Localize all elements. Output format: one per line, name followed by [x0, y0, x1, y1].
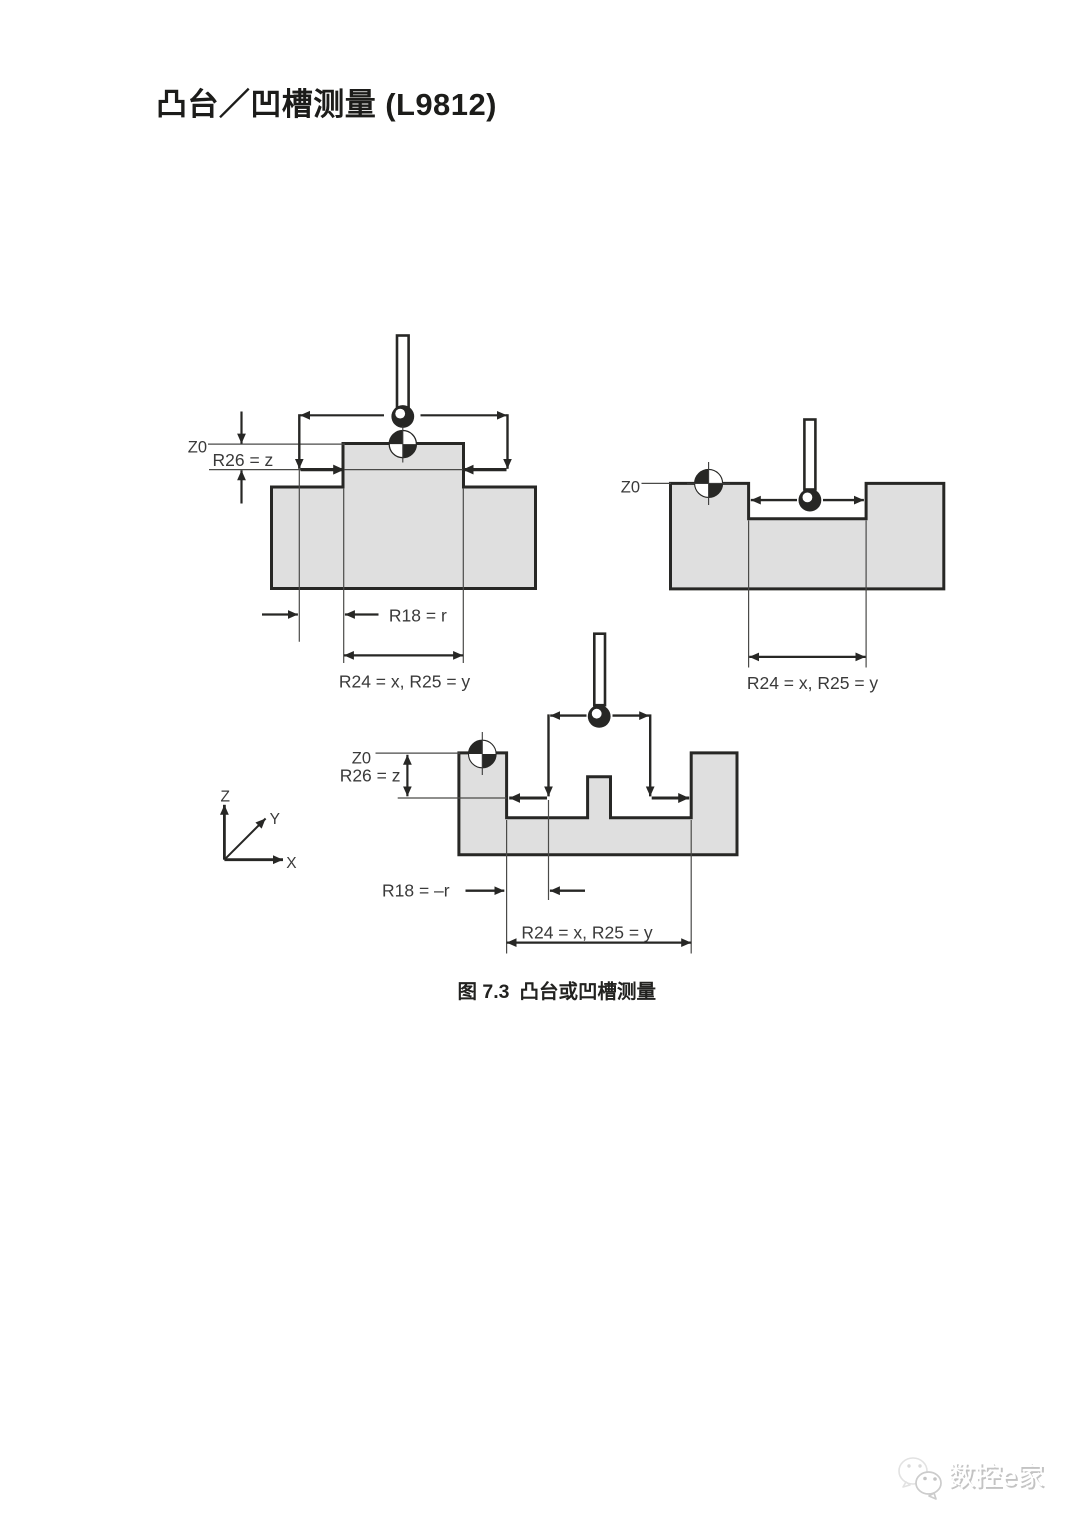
svg-text:图 7.3凸台或凹槽测量: 图 7.3凸台或凹槽测量: [458, 980, 657, 1003]
small right arrow at probe radius offset d1: [262, 613, 298, 615]
small down arrow above Z0 line d1: [240, 412, 242, 444]
Z0 thin line d2: [642, 482, 672, 484]
svg-text:Z: Z: [220, 789, 229, 806]
groove left touch arrow d2: [751, 499, 797, 501]
probe path left horizontal arrow d3: [550, 714, 586, 716]
probe stylus stem d2: [804, 420, 815, 490]
svg-text:Z0: Z0: [621, 479, 640, 497]
datum symbol d1: [389, 426, 416, 463]
R26 level thin line d3: [398, 797, 507, 799]
X axis: [224, 858, 283, 861]
R26 vertical double arrow d3: [406, 755, 408, 797]
datum symbol d2: [687, 462, 730, 505]
boss left flank extension line d1: [343, 488, 345, 663]
probe stylus stem d1: [397, 336, 409, 408]
groove right extension line d2: [865, 521, 867, 668]
svg-text:R24 = x, R25 = y: R24 = x, R25 = y: [747, 673, 879, 693]
right corner drop line with down arrow d1: [506, 414, 508, 469]
svg-text:R26 = z: R26 = z: [213, 450, 274, 470]
workpiece groove-with-boss outline: [459, 753, 737, 855]
centre extension line d3: [548, 800, 550, 900]
probe ball d3: [588, 705, 611, 728]
Z0 reference thin line d1: [208, 443, 345, 445]
R18 right arrow d3: [466, 890, 505, 892]
thick approach arrow to boss left flank d1: [301, 468, 345, 471]
thick approach arrow to boss right flank d1: [463, 468, 507, 471]
probe stylus stem d3: [594, 634, 605, 706]
probe path right vertical down arrow d3: [649, 714, 651, 796]
probe level dimension line left segment d1: [300, 414, 384, 416]
thick touch arrow to groove right wall d3: [652, 797, 690, 800]
boss right flank extension line d1: [462, 488, 464, 663]
probe path right horizontal arrow d3: [613, 714, 650, 716]
groove right extension line d3: [690, 820, 692, 954]
watermark logo small bubble: [916, 1472, 941, 1499]
probe ball d1: [391, 405, 414, 428]
svg-text:R18 = r: R18 = r: [389, 606, 447, 626]
groove left extension line d3: [506, 820, 508, 954]
Z axis: [223, 805, 226, 860]
probe path left vertical down arrow d3: [547, 714, 549, 796]
svg-text:Y: Y: [270, 811, 280, 828]
R18 arrow d1: [345, 613, 379, 615]
thick touch arrow to groove left wall d3: [509, 797, 547, 800]
probe ball d2: [799, 489, 822, 512]
svg-text:数控e家: 数控e家: [948, 1462, 1044, 1492]
workpiece boss outline: [272, 444, 536, 589]
groove right touch arrow d2: [823, 499, 864, 501]
bottom dimension double arrow d2: [749, 656, 865, 658]
workpiece groove outline: [671, 483, 944, 589]
R26 level thin line d1: [209, 469, 464, 471]
small up arrow below R26 line d1: [240, 470, 242, 503]
svg-text:R24 = x, R25 = y: R24 = x, R25 = y: [521, 923, 653, 943]
svg-text:R24 = x, R25 = y: R24 = x, R25 = y: [339, 672, 471, 692]
groove left extension line d2: [748, 521, 750, 668]
bottom dimension double arrow d1: [344, 654, 463, 656]
probe level dimension line right segment d1: [421, 414, 507, 416]
svg-text:R18 = –r: R18 = –r: [382, 881, 450, 901]
left corner drop line with down arrow d1: [298, 414, 300, 469]
svg-text:凸台／凹槽测量 (L9812): 凸台／凹槽测量 (L9812): [156, 87, 497, 122]
svg-text:Z0: Z0: [188, 439, 207, 457]
watermark logo big bubble: [899, 1458, 927, 1487]
left extension line d1: [298, 470, 300, 642]
Y axis: [224, 819, 265, 860]
datum symbol d3: [469, 732, 497, 775]
svg-text:X: X: [286, 855, 297, 872]
Z0 thin line d3: [376, 752, 461, 754]
svg-text:R26 = z: R26 = z: [340, 766, 401, 786]
R18 left arrow at centre line d3: [550, 890, 585, 892]
bottom dimension double arrow d3: [507, 941, 692, 943]
